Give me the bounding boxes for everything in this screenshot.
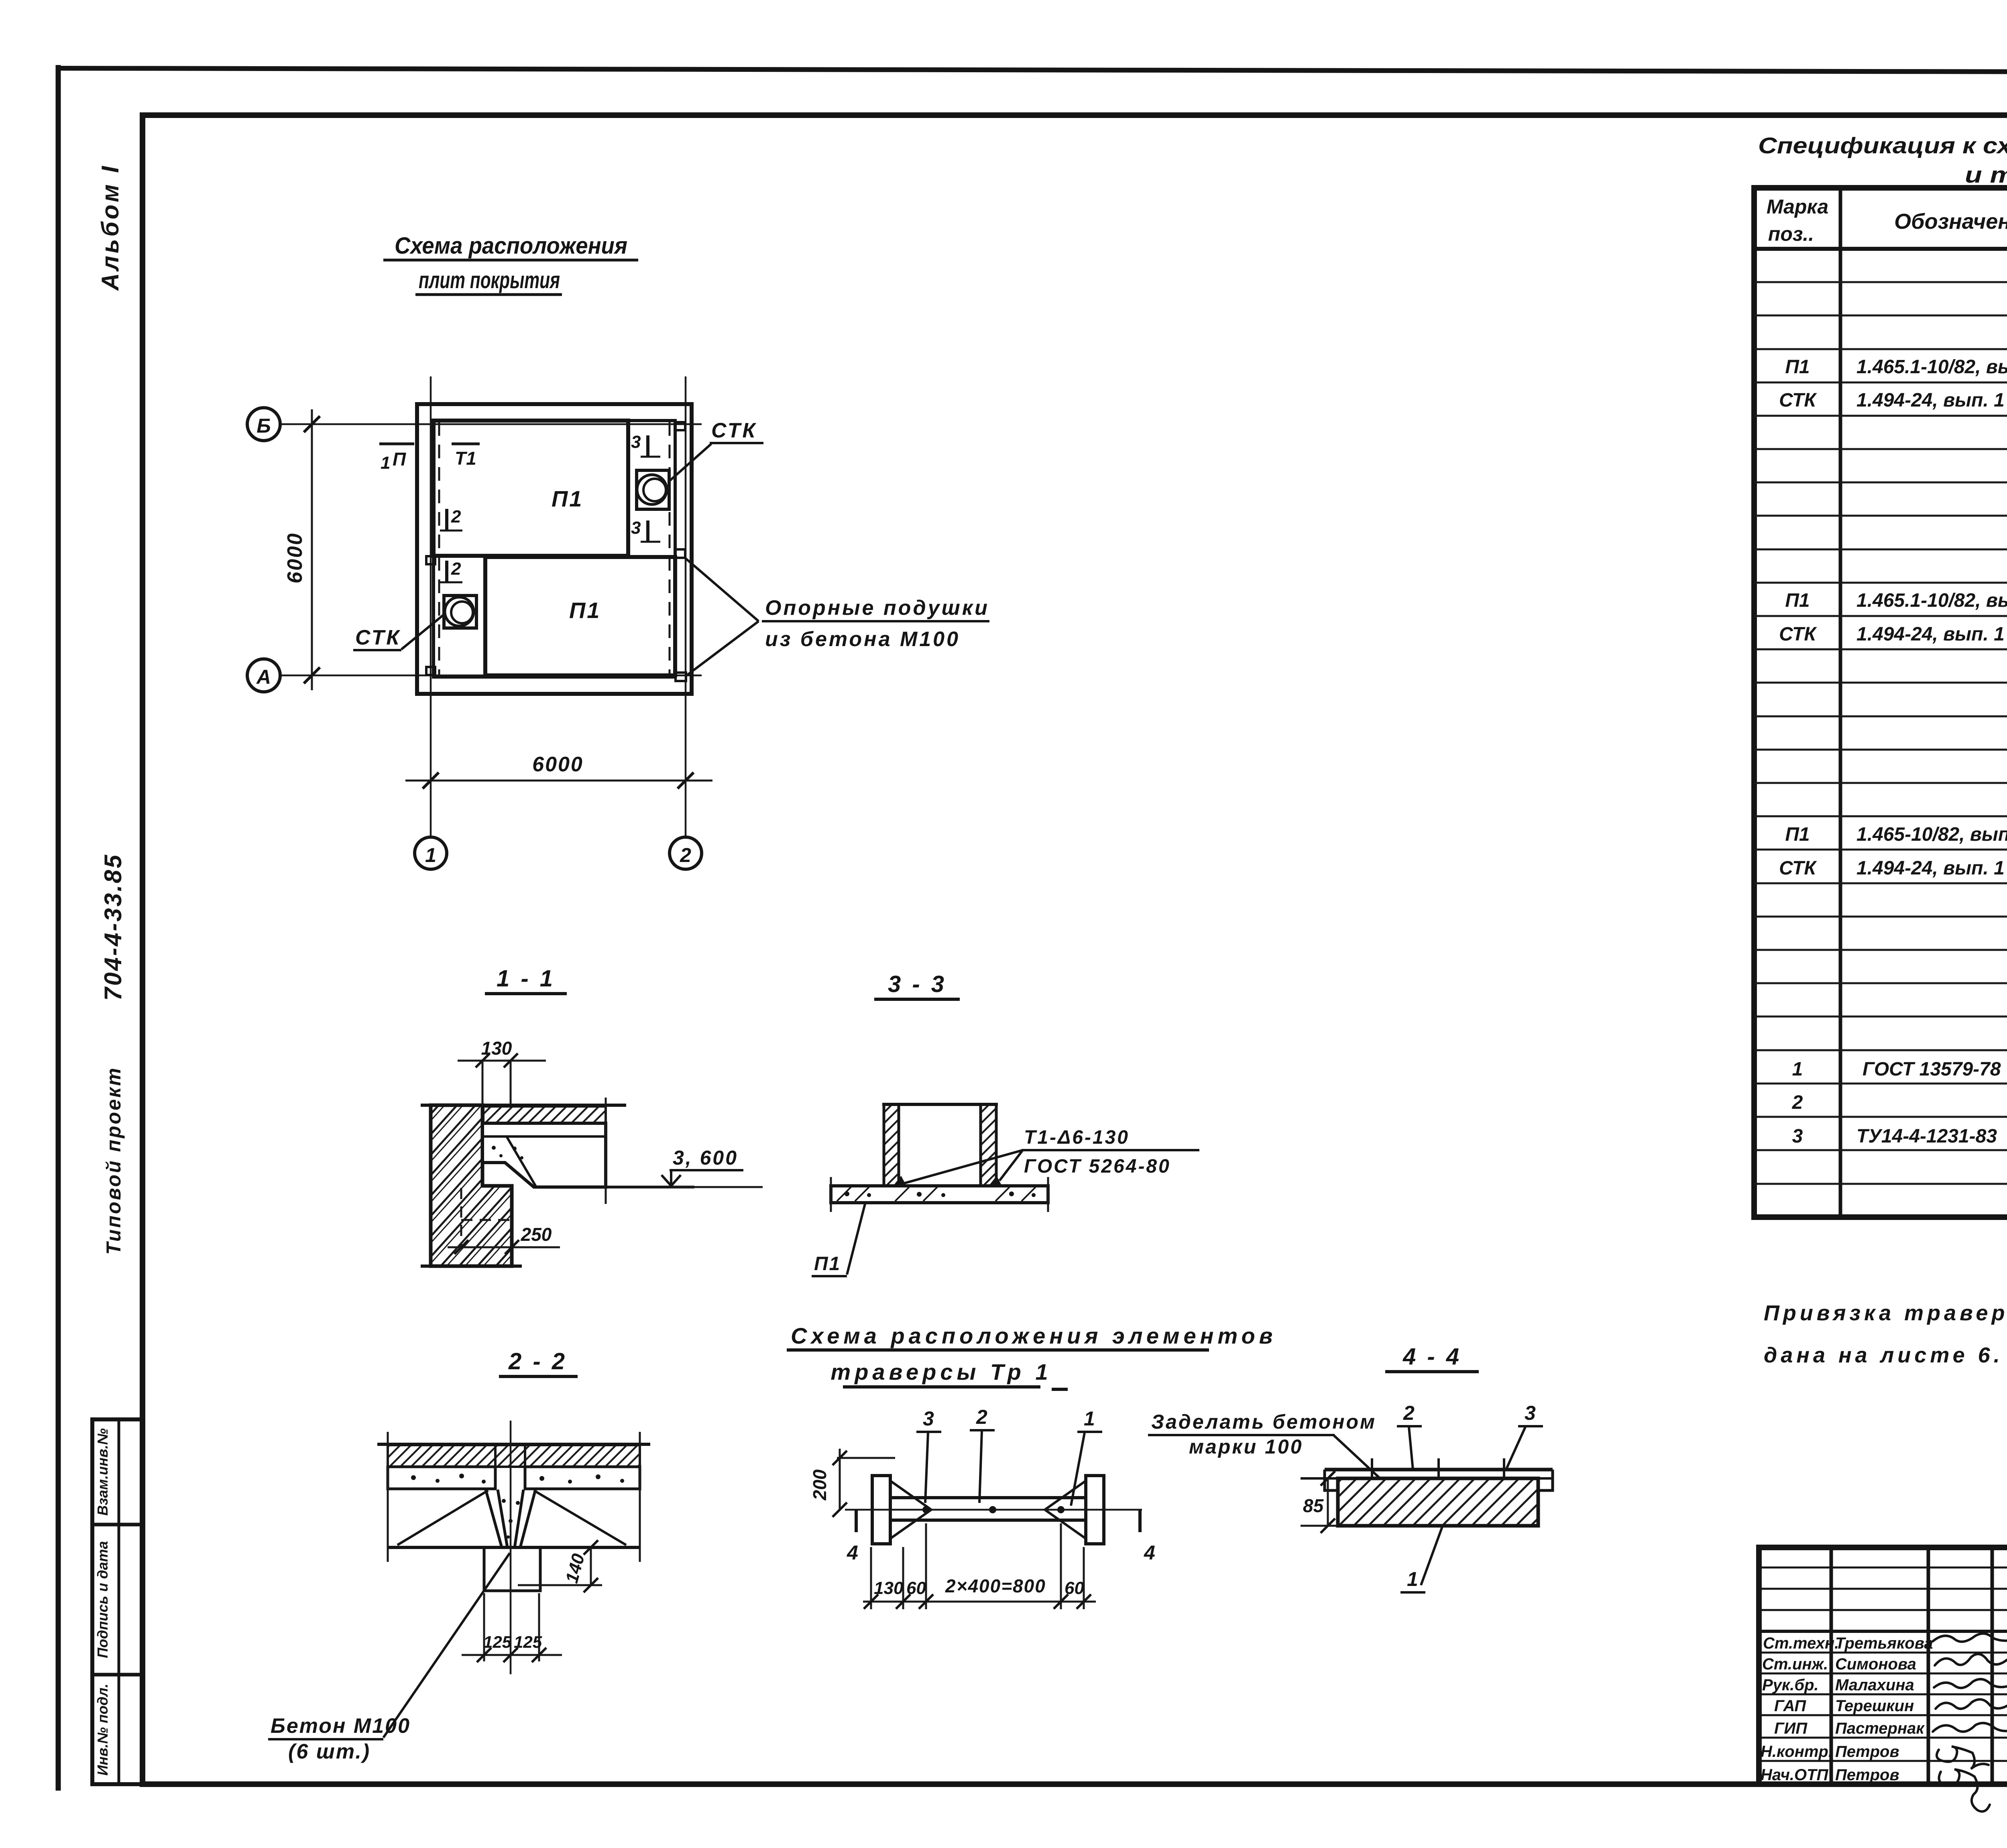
svg-text:6000: 6000 — [532, 753, 584, 776]
support pad top right — [676, 422, 685, 430]
svg-text:Схема расположения: Схема расположения — [395, 233, 627, 259]
svg-text:2: 2 — [1403, 1402, 1415, 1424]
svg-text:4 - 4: 4 - 4 — [1402, 1344, 1461, 1370]
svg-text:Симонова: Симонова — [1835, 1655, 1916, 1673]
svg-text:П1: П1 — [814, 1253, 841, 1275]
svg-text:Терешкин: Терешкин — [1835, 1697, 1914, 1715]
hidden dashed line left — [438, 422, 440, 675]
bottom dim extension lines — [863, 1523, 1096, 1609]
svg-text:1: 1 — [1084, 1407, 1095, 1430]
sheet outer border top — [56, 68, 2007, 73]
svg-text:СТК: СТК — [1779, 390, 1817, 411]
hidden dashed line right — [669, 422, 671, 675]
svg-text:Т1: Т1 — [455, 448, 476, 469]
left bottom stamp box — [92, 1419, 142, 1784]
svg-text:ГОСТ 5264-80: ГОСТ 5264-80 — [1024, 1156, 1171, 1177]
svg-text:П1: П1 — [569, 598, 601, 623]
svg-text:1.494-24, вып. 1: 1.494-24, вып. 1 — [1856, 624, 2005, 645]
svg-text:Альбом I: Альбом I — [97, 164, 124, 291]
svg-text:П1: П1 — [1785, 356, 1810, 378]
svg-text:поз..: поз.. — [1768, 223, 1814, 245]
svg-text:Ст.техн.: Ст.техн. — [1763, 1635, 1839, 1652]
right gusset diagonals — [1045, 1481, 1086, 1510]
svg-text:85: 85 — [1303, 1495, 1324, 1516]
svg-text:СТК: СТК — [711, 419, 757, 442]
weld marks — [893, 1176, 906, 1186]
svg-text:Заделать бетоном: Заделать бетоном — [1151, 1411, 1376, 1433]
dim 6000 left — [311, 409, 313, 690]
svg-text:и траверсы Тр 1: и траверсы Тр 1 — [1965, 162, 2007, 188]
bottom extension — [1301, 1525, 1338, 1527]
section mark 4 left — [855, 1510, 858, 1532]
svg-text:2: 2 — [451, 507, 461, 527]
plate bottom line extension — [606, 1186, 694, 1189]
tank wall inner square — [434, 421, 675, 677]
svg-text:6000: 6000 — [283, 532, 307, 583]
svg-text:плит покрытия: плит покрытия — [419, 267, 560, 293]
svg-text:ТУ14-4-1231-83: ТУ14-4-1231-83 — [1856, 1126, 1997, 1147]
hatched block — [1338, 1478, 1538, 1526]
svg-text:125: 125 — [514, 1633, 542, 1651]
svg-text:3: 3 — [1525, 1402, 1536, 1424]
label Т1 — [452, 443, 480, 445]
svg-text:СТК: СТК — [1779, 624, 1817, 645]
plates bottom line — [388, 1546, 640, 1549]
svg-text:Привязка траверс фундаменто: Привязка траверс фундаментов под трубопр… — [1764, 1301, 2007, 1325]
dim 140 — [518, 1584, 602, 1586]
wall bottom break line — [421, 1265, 522, 1268]
svg-text:3: 3 — [631, 518, 641, 538]
support pad bottom left — [426, 667, 435, 675]
svg-text:П1: П1 — [1785, 590, 1810, 611]
tank wall outer square — [417, 404, 692, 694]
section mark 2 upper — [445, 509, 448, 531]
svg-text:Схема расположения элементов: Схема расположения элементов — [791, 1323, 1277, 1348]
svg-text:4: 4 — [1144, 1541, 1155, 1564]
roof top line — [377, 1443, 650, 1446]
dim 200 — [837, 1457, 895, 1459]
svg-text:Бетон М100: Бетон М100 — [271, 1714, 411, 1738]
plate flange band left — [388, 1467, 495, 1489]
svg-text:Типовой проект: Типовой проект — [102, 1066, 125, 1254]
svg-text:из бетона М100: из бетона М100 — [765, 628, 960, 651]
joint pad below — [484, 1547, 540, 1591]
svg-text:Н.контр.: Н.контр. — [1761, 1743, 1833, 1761]
section mark 1 top-left — [379, 443, 414, 445]
svg-text:1.465.1-10/82, вып. 1: 1.465.1-10/82, вып. 1 — [1856, 356, 2007, 378]
title block outline — [1759, 1547, 2007, 1784]
traverse bar: right flange — [1086, 1476, 1104, 1544]
plate flange band right — [525, 1467, 640, 1489]
axis circle Б — [247, 408, 280, 441]
svg-text:(6 шт.): (6 шт.) — [288, 1740, 370, 1763]
joint ribs — [486, 1467, 535, 1547]
roof hatched band — [483, 1106, 606, 1123]
svg-text:1.465.1-10/82, вып. 1: 1.465.1-10/82, вып. 1 — [1856, 590, 2007, 611]
leader to pads — [684, 557, 759, 621]
spec table row lines — [1754, 282, 2007, 1184]
svg-text:1: 1 — [1407, 1568, 1418, 1590]
section mark 4 right — [1138, 1510, 1142, 1532]
svg-text:Петров: Петров — [1835, 1743, 1899, 1761]
bolt dots — [922, 1506, 930, 1513]
svg-text:Подпись и дата: Подпись и дата — [94, 1541, 111, 1658]
spec table body texts — [1779, 255, 2007, 1151]
axis circle А — [247, 659, 280, 692]
svg-text:3, 600: 3, 600 — [673, 1147, 738, 1169]
svg-text:704-4-33.85: 704-4-33.85 — [100, 853, 126, 1001]
plate taper diagonals — [397, 1490, 488, 1545]
svg-text:1.494-24, вып. 1: 1.494-24, вып. 1 — [1856, 858, 2005, 879]
spec table grid — [1754, 188, 2007, 1217]
stakan right wall — [981, 1104, 996, 1186]
svg-text:3: 3 — [923, 1407, 934, 1430]
svg-text:250: 250 — [521, 1224, 552, 1245]
plate cut line right — [605, 1098, 607, 1204]
wall hatched — [431, 1105, 512, 1266]
left step — [1325, 1470, 1338, 1490]
support pad bottom right — [676, 673, 686, 681]
svg-text:Опорные подушки: Опорные подушки — [765, 596, 989, 620]
svg-text:1 - 1: 1 - 1 — [497, 966, 555, 992]
svg-text:2: 2 — [976, 1406, 987, 1428]
svg-text:2 - 2: 2 - 2 — [508, 1348, 567, 1374]
svg-text:ГОСТ 13579-78: ГОСТ 13579-78 — [1862, 1059, 2001, 1080]
title block left-zone rows — [1759, 1567, 2007, 1569]
axis circle 2 — [670, 837, 702, 869]
axis lines — [280, 376, 702, 837]
svg-text:1: 1 — [425, 844, 436, 866]
roof hatched band 2-2 — [388, 1445, 640, 1467]
svg-text:Третьякова: Третьякова — [1835, 1635, 1933, 1652]
svg-text:1.494-24, вып. 1: 1.494-24, вып. 1 — [1856, 390, 2005, 411]
svg-text:СТК: СТК — [355, 626, 401, 649]
plate cross-section — [482, 1123, 606, 1187]
traverse bar: left flange — [872, 1476, 890, 1544]
hidden seat dashes — [460, 1188, 462, 1246]
svg-text:Ст.инж.: Ст.инж. — [1762, 1655, 1828, 1673]
svg-text:Малахина: Малахина — [1835, 1676, 1914, 1694]
top surface line — [421, 1104, 626, 1107]
svg-text:П: П — [393, 449, 406, 470]
dims 125 125 — [483, 1593, 485, 1661]
top plate band — [1325, 1468, 1553, 1472]
svg-text:Пастернак: Пастернак — [1835, 1720, 1925, 1737]
svg-text:130: 130 — [481, 1038, 512, 1059]
svg-text:Рук.бр.: Рук.бр. — [1762, 1676, 1819, 1694]
stakan top line — [882, 1103, 998, 1106]
slab end break lines — [830, 1177, 832, 1212]
svg-text:60: 60 — [1065, 1578, 1084, 1598]
stakan box bottom left — [444, 596, 476, 628]
svg-text:1.465-10/82, вып. 1: 1.465-10/82, вып. 1 — [1856, 824, 2007, 845]
svg-text:Обозначение: Обозначение — [1894, 209, 2007, 234]
center line 2-2 — [510, 1421, 512, 1674]
support pad mid left — [426, 556, 435, 564]
svg-text:200: 200 — [809, 1469, 830, 1500]
svg-text:траверсы Тр 1: траверсы Тр 1 — [830, 1359, 1052, 1384]
svg-text:2: 2 — [680, 844, 691, 866]
svg-text:Б: Б — [256, 415, 271, 437]
svg-text:3 - 3: 3 - 3 — [888, 971, 947, 997]
svg-text:2: 2 — [451, 559, 461, 579]
concrete dots in flange bands — [411, 1474, 624, 1539]
section mark 2 lower — [445, 561, 448, 582]
svg-text:Нач.ОТП: Нач.ОТП — [1761, 1766, 1829, 1784]
svg-text:Т1-Δ6-130: Т1-Δ6-130 — [1024, 1127, 1130, 1148]
svg-text:СТК: СТК — [1779, 858, 1817, 879]
svg-text:4: 4 — [847, 1541, 858, 1564]
traverse center line — [845, 1509, 1142, 1511]
sheet outer border left — [56, 65, 61, 1791]
plate П1 top — [434, 421, 628, 556]
stakan box top right — [637, 470, 669, 509]
dowel nails — [1372, 1458, 1504, 1485]
svg-text:марки 100: марки 100 — [1189, 1435, 1303, 1458]
svg-text:Взам.инв.№: Взам.инв.№ — [94, 1428, 111, 1516]
left gusset diagonals — [890, 1481, 931, 1510]
signatures — [1933, 1634, 2007, 1811]
svg-text:2×400=800: 2×400=800 — [945, 1576, 1046, 1596]
svg-text:П1: П1 — [1785, 824, 1810, 845]
svg-text:Петров: Петров — [1835, 1766, 1899, 1784]
svg-text:2: 2 — [1792, 1092, 1803, 1113]
svg-text:Инв.№ подл.: Инв.№ подл. — [94, 1683, 111, 1775]
svg-text:60: 60 — [906, 1578, 926, 1598]
support pad mid right — [676, 549, 685, 558]
stakan left wall — [884, 1104, 899, 1186]
svg-text:А: А — [256, 666, 271, 688]
signature rows labels — [1761, 1635, 1933, 1784]
end break lines 2-2 — [387, 1432, 389, 1562]
svg-text:дана на листе 6.: дана на листе 6. — [1764, 1343, 2003, 1367]
svg-text:130: 130 — [874, 1578, 904, 1598]
svg-text:125: 125 — [483, 1633, 512, 1651]
svg-text:Спецификация к схемам распо: Спецификация к схемам расположения плит … — [1758, 133, 2007, 159]
axis circle 1 — [415, 837, 447, 869]
svg-text:ГИП: ГИП — [1774, 1720, 1808, 1737]
svg-text:П1: П1 — [552, 486, 583, 511]
svg-text:ГАП: ГАП — [1774, 1697, 1806, 1715]
svg-text:1: 1 — [1792, 1059, 1803, 1080]
svg-text:1: 1 — [381, 453, 390, 473]
plate П1 bottom — [485, 557, 675, 675]
svg-text:3: 3 — [631, 432, 641, 452]
right step — [1538, 1470, 1553, 1490]
svg-text:3: 3 — [1792, 1126, 1803, 1147]
traverse bar: main member — [890, 1498, 1086, 1520]
title block verticals — [1830, 1547, 1833, 1784]
slab band — [831, 1186, 1048, 1203]
bottom dim ticks — [864, 1594, 1091, 1609]
dim 6000 bottom — [405, 780, 712, 782]
svg-text:Марка: Марка — [1767, 195, 1828, 218]
